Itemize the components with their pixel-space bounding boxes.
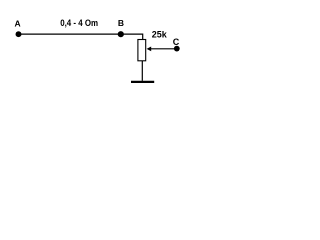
svg-text:C: C	[173, 37, 180, 47]
svg-text:A: A	[15, 19, 21, 29]
wire potentiometer bottom to ground	[141, 61, 143, 81]
wiper arrow to node C	[150, 48, 177, 50]
node A	[16, 31, 22, 37]
svg-text:0,4 - 4 Om: 0,4 - 4 Om	[60, 18, 98, 28]
svg-text:B: B	[118, 18, 124, 28]
node C	[174, 46, 180, 52]
svg-text:25k: 25k	[152, 30, 168, 40]
node B	[118, 31, 124, 37]
wire A to B to corner above potentiometer	[19, 34, 143, 39]
ground	[131, 81, 154, 83]
potentiometer body	[138, 40, 146, 61]
